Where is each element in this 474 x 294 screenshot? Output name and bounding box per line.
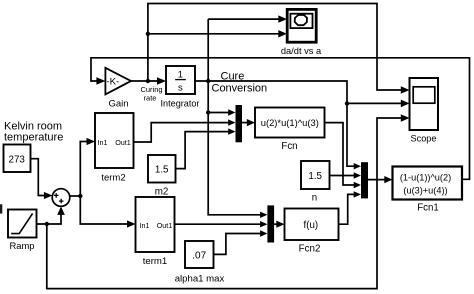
svg-text:Integrator: Integrator xyxy=(161,99,200,109)
arrow into MuxC input2 xyxy=(260,221,267,227)
svg-text:Cure: Cure xyxy=(221,71,245,83)
wire MuxB to Fcn1 xyxy=(368,179,385,181)
svg-text:alpha1 max: alpha1 max xyxy=(175,273,225,284)
svg-text:In1: In1 xyxy=(140,221,150,230)
wire junction to term1 In1 xyxy=(80,196,128,224)
arrow into MuxC input3 xyxy=(260,230,267,236)
constant block 273 xyxy=(4,145,31,173)
wire 273 to Sum xyxy=(31,159,45,196)
arrow into MuxB input2 xyxy=(354,172,361,178)
integrator block xyxy=(161,66,200,109)
wire term2 Out1 to MuxA input2 xyxy=(134,123,230,142)
svg-text:273: 273 xyxy=(9,155,26,166)
XY graph block da/dt vs a xyxy=(281,9,322,56)
svg-text:f(u): f(u) xyxy=(304,220,319,231)
wire Integrator output alpha to MuxB input1 xyxy=(195,81,355,166)
svg-text:Fcn: Fcn xyxy=(281,141,297,152)
constant block .07 xyxy=(175,241,225,284)
junction dot ramp branch xyxy=(45,222,49,226)
arrow into Scope input3 xyxy=(401,114,410,122)
wire Ramp to Sum xyxy=(37,209,62,225)
wire MuxC to Fcn2 xyxy=(274,223,277,225)
fcn block u(2)*u(1)^u(3) xyxy=(255,108,325,153)
subsystem block term2 xyxy=(95,113,134,184)
fcn2 block f(u) xyxy=(285,209,339,255)
arrow into MuxB input1 xyxy=(354,163,361,169)
junction dot scope input2 tap xyxy=(345,101,349,105)
arrow into Integrator xyxy=(157,77,166,85)
svg-text:rate: rate xyxy=(144,93,157,102)
svg-text:Conversion: Conversion xyxy=(212,83,268,95)
svg-text:-K-: -K- xyxy=(106,77,119,88)
subsystem block term1 xyxy=(136,197,175,267)
mux C before Fcn2 xyxy=(267,205,274,242)
arrow into MuxA input3 xyxy=(228,128,235,134)
arrow into Scope input2 xyxy=(401,100,410,108)
arrow into MuxA input2 xyxy=(228,119,235,125)
svg-text:n: n xyxy=(312,193,317,204)
fcn1 block (1-u(1))^u(2)(u(3)+u(4)) xyxy=(393,167,463,214)
arrow into MuxA input1 xyxy=(228,109,235,115)
wire Fcn output to MuxB input3 xyxy=(325,123,356,185)
arrow into term1 xyxy=(127,220,136,227)
wire Sum output to junction xyxy=(70,195,81,197)
svg-text:Out1: Out1 xyxy=(157,221,173,230)
arrow into term2 xyxy=(87,138,96,145)
svg-text:Gain: Gain xyxy=(108,99,128,110)
junction dot alpha riser tap xyxy=(206,79,210,83)
annotation Cure Conversion xyxy=(212,71,268,95)
arrow into Scope input1 xyxy=(401,86,410,94)
svg-text:1.5: 1.5 xyxy=(308,171,322,182)
wire junction to term2 In1 xyxy=(80,142,87,197)
annotation Kelvin room temperature xyxy=(4,120,63,143)
left edge artifact xyxy=(0,204,2,213)
wire n to MuxB input2 xyxy=(330,175,356,177)
wire alpha branch to Scope input 2 xyxy=(347,102,402,104)
scope block xyxy=(410,78,439,144)
svg-text:Out1: Out1 xyxy=(115,138,131,147)
svg-text:Fcn1: Fcn1 xyxy=(417,202,439,213)
arrow into XY graph input2 xyxy=(278,30,287,37)
mux B before Fcn1 xyxy=(361,162,368,198)
svg-text:s: s xyxy=(178,83,183,94)
arrow into MuxC input1 xyxy=(260,212,267,218)
constant block n xyxy=(301,161,330,204)
svg-text:.07: .07 xyxy=(192,251,206,262)
svg-text:m2: m2 xyxy=(155,187,169,198)
svg-text:1.5: 1.5 xyxy=(155,164,169,175)
svg-text:term2: term2 xyxy=(101,173,125,184)
svg-text:(u(3)+u(4)): (u(3)+u(4)) xyxy=(403,186,447,196)
svg-text:In1: In1 xyxy=(98,138,108,147)
arrow into MuxB input4 xyxy=(354,191,361,197)
svg-text:term1: term1 xyxy=(143,256,168,267)
annotation Curing rate xyxy=(140,85,162,102)
wire curing-rate branch to XY input2 xyxy=(148,33,279,35)
svg-text:temperature: temperature xyxy=(4,131,63,143)
arrow into Fcn2 xyxy=(276,221,284,228)
wire Ramp branch to Scope input 3 xyxy=(47,118,402,289)
junction dot curing rate tap xyxy=(146,79,150,83)
junction dot sum output xyxy=(78,194,82,198)
wire Gain to Integrator xyxy=(131,80,158,82)
svg-text:Fcn2: Fcn2 xyxy=(299,244,321,255)
arrow into Fcn1 xyxy=(384,176,392,183)
sum block xyxy=(52,189,70,207)
junction dot MuxA input1 tap xyxy=(206,110,210,114)
svg-text:u(2)*u(1)^u(3): u(2)*u(1)^u(3) xyxy=(261,117,319,128)
arrow into XY graph input1 xyxy=(278,15,287,22)
svg-text:(1-u(1))^u(2): (1-u(1))^u(2) xyxy=(400,173,451,183)
svg-text:da/dt vs a: da/dt vs a xyxy=(281,46,322,56)
wire m2 to MuxA input3 xyxy=(176,132,230,169)
wire Fcn1 output feedback to Gain input xyxy=(91,58,470,180)
arrow into Sum bottom xyxy=(57,206,65,215)
gain block xyxy=(105,68,131,110)
arrow into MuxB input3 xyxy=(354,182,361,188)
wire .07 to MuxC input3 xyxy=(214,234,262,255)
arrow into Gain xyxy=(96,77,105,85)
ramp block xyxy=(8,210,37,252)
arrow into Fcn xyxy=(247,119,255,126)
svg-text:Scope: Scope xyxy=(410,134,436,144)
svg-text:Ramp: Ramp xyxy=(9,240,34,251)
mux A before Fcn xyxy=(236,105,243,142)
wire term1 Out1 to MuxC input2 xyxy=(175,223,262,225)
wire alpha riser to XY graph input1 and down to MuxC input1 xyxy=(208,19,261,215)
arrow into Sum left xyxy=(44,192,53,199)
wire MuxA to Fcn xyxy=(242,122,248,124)
constant block m2 xyxy=(148,155,176,198)
junction dot XY input2 tap xyxy=(146,32,150,36)
wire alpha riser top to XY input1 xyxy=(208,18,279,20)
wire alpha branch to MuxA input1 xyxy=(208,112,229,114)
wire curing-rate riser to top line and Scope input1 xyxy=(148,4,402,91)
wire Fcn2 output to MuxB input4 xyxy=(339,194,356,224)
